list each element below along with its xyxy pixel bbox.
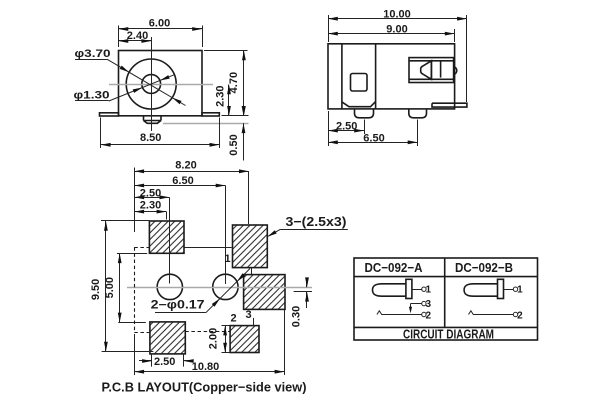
- dimension 0.50 extension line (tab bottom): [163, 123, 249, 125]
- svg-text:φ1.30: φ1.30: [74, 90, 110, 102]
- svg-text:1: 1: [224, 253, 230, 265]
- circuit B: terminal 2 contact line: [469, 311, 518, 317]
- svg-text:0.30: 0.30: [291, 306, 303, 327]
- circuit A: terminal 3 circle: [411, 301, 427, 305]
- front view: outer barrel circle (3.70 dia): [126, 59, 176, 109]
- side view: front pin (pin 2 lug): [355, 109, 374, 118]
- leader line for holes (2-dia0.17): [155, 269, 250, 313]
- svg-text:2: 2: [517, 310, 523, 321]
- svg-text:5.00: 5.00: [104, 277, 116, 298]
- side view: rear terminal tab: [432, 103, 467, 107]
- dimension 2.00 line with arrows: [223, 326, 227, 353]
- circuit table column divider: [444, 258, 446, 327]
- circuit table header divider: [354, 276, 538, 278]
- dimension 5.00 text: [104, 277, 116, 298]
- side view: barrel bottom chamfer: [342, 102, 376, 107]
- dimension 8.20 line with arrows: [134, 169, 249, 173]
- svg-text:9.50: 9.50: [90, 279, 102, 300]
- pcb link line (pad A to pad B): [184, 247, 231, 249]
- dimension 4.70 line with arrows: [242, 51, 246, 116]
- dimension 0.50 line with outside arrows: [242, 106, 246, 161]
- svg-text:2: 2: [426, 310, 432, 321]
- svg-text:2.00: 2.00: [208, 328, 220, 349]
- side view: body outline: [328, 44, 455, 109]
- dimension 10.00 extension lines: [329, 15, 467, 102]
- dimension 10.80 extension lines: [135, 310, 285, 375]
- dimension 0.30 lines with outside arrows: [305, 277, 309, 308]
- svg-text:3: 3: [245, 309, 251, 321]
- dimension 2.30 text: [214, 85, 226, 106]
- svg-text:2.30: 2.30: [214, 85, 226, 106]
- side view: plug tip symbol: [421, 61, 432, 80]
- dimension 10.00 line with arrows: [328, 17, 467, 21]
- dimension 6.50 extension into hole 2: [225, 186, 227, 285]
- dimension 2.30 text (pcb): [140, 200, 161, 212]
- header text DC-092-A: [365, 260, 424, 275]
- svg-text:CIRCUIT DIAGRAM: CIRCUIT DIAGRAM: [403, 327, 494, 341]
- side view: middle pin (pin 3 lug): [409, 109, 427, 118]
- leader line for dia 1.30: [75, 75, 174, 101]
- dimension 6.00 text: [149, 18, 170, 30]
- dimension 2.30 line with arrows (pcb): [134, 210, 166, 214]
- front view: horizontal centerline: [109, 84, 213, 86]
- 2-dia0.17 text: [151, 300, 205, 312]
- dimension 2.30 extension (pad A center): [166, 212, 168, 220]
- dimension 6.50 text (side view): [363, 132, 384, 144]
- dimension 2.50 outside arrows (pad D): [139, 359, 194, 363]
- svg-text:8.50: 8.50: [140, 132, 161, 144]
- front view: vertical centerline: [151, 37, 153, 131]
- dimension 2.40 line with arrows: [119, 39, 152, 43]
- circuit A: switch arrow: [409, 304, 412, 314]
- pcb pad B (top-right, pin1): [233, 225, 268, 268]
- pcb pin label 3: [245, 309, 251, 321]
- dimension 10.00 text: [383, 8, 411, 20]
- front view: jack body outline: [119, 51, 203, 116]
- dimension 9.00 line with arrows: [328, 32, 455, 36]
- dimension 2.50 extension into hole 1: [169, 197, 171, 283]
- pcb horizontal centerline: [127, 287, 312, 289]
- svg-text:2.40: 2.40: [127, 30, 148, 42]
- circuit B: terminal 2 label: [517, 310, 523, 321]
- front view: right mounting flange: [202, 113, 219, 116]
- svg-text:2−φ0.17: 2−φ0.17: [151, 300, 205, 312]
- side view: contact bump on right edge: [454, 67, 457, 75]
- dimension 0.30 extension line (pad C center): [294, 291, 312, 293]
- dimension 2.30 line with arrows: [227, 85, 231, 116]
- svg-text:2.50: 2.50: [140, 187, 161, 199]
- svg-text:10.00: 10.00: [383, 8, 411, 20]
- dimension 6.50 text (pcb): [172, 175, 193, 187]
- svg-text:φ3.70: φ3.70: [75, 48, 111, 60]
- dimension 6.50 extension line (side view): [417, 120, 419, 147]
- svg-text:6.50: 6.50: [172, 175, 193, 187]
- circuit A: terminal 2 label: [426, 310, 432, 321]
- dia 1.30 text: [74, 90, 110, 102]
- dimension 9.50 extension lines: [101, 221, 153, 352]
- pcb pad D (bottom-left): [150, 322, 185, 354]
- dimension 2.00 extension lines: [222, 326, 231, 353]
- dimension 8.50 text: [140, 132, 161, 144]
- svg-text:2.50: 2.50: [154, 356, 175, 368]
- caption CIRCUIT DIAGRAM: [403, 327, 494, 341]
- dimension 9.50 text: [90, 279, 102, 300]
- circuit A: jack barrel symbol: [373, 279, 427, 298]
- side view: front plate line: [341, 44, 343, 109]
- front view: left mounting flange: [100, 113, 119, 116]
- svg-text:2: 2: [230, 312, 236, 324]
- svg-text:2.30: 2.30: [140, 200, 161, 212]
- pcb hole 1 (left): [157, 274, 182, 299]
- svg-text:10.80: 10.80: [192, 361, 220, 373]
- dimension 6.50 line with arrows (side view): [328, 140, 418, 144]
- dimension 0.50 text: [228, 134, 240, 155]
- pcb pin label 2: [230, 312, 236, 324]
- dimension 10.80 line with arrows: [134, 370, 284, 374]
- side view: contact divider line: [440, 61, 442, 77]
- circuit table bottom band divider: [354, 326, 538, 328]
- dimension 6.00 extension lines: [119, 26, 203, 48]
- front view: center pin hole circle (1.30 dia): [142, 75, 161, 94]
- pcb pad A (top-left, pin2 side): [149, 221, 184, 253]
- pcb left extension line: [134, 168, 136, 233]
- header text DC-092-B: [455, 260, 513, 275]
- dia 3.70 text: [75, 48, 111, 60]
- svg-text:3: 3: [426, 299, 432, 310]
- circuit A: terminal 2 contact line: [377, 311, 426, 317]
- pcb layout caption: [102, 380, 307, 395]
- circuit A: terminal 3 label: [426, 299, 432, 310]
- dimension 2.00 text: [208, 328, 220, 349]
- dimension 2.50 line with arrows (side view): [328, 129, 364, 133]
- pcb pin 3 tick line: [253, 318, 255, 326]
- svg-text:8.20: 8.20: [175, 159, 196, 171]
- svg-text:1: 1: [426, 285, 432, 296]
- dimension 4.70 extension lines: [204, 51, 249, 116]
- 3-(2.5x3) text: [286, 214, 347, 229]
- dimension 10.80 text: [192, 361, 220, 373]
- pcb pad link line (pad B to pad C): [251, 268, 253, 275]
- circuit A: terminal 1 label: [426, 285, 432, 296]
- pcb pad E (bottom-center, pin2): [230, 326, 259, 353]
- dimension 6.50 line with arrows (pcb): [134, 184, 225, 188]
- svg-text:9.00: 9.00: [386, 23, 407, 35]
- dimension 5.00 extension lines: [117, 254, 147, 323]
- dimension 8.20 text: [175, 159, 196, 171]
- svg-text:P.C.B LAYOUT(Copper−side view): P.C.B LAYOUT(Copper−side view): [102, 380, 307, 395]
- svg-text:DC−092−B: DC−092−B: [455, 260, 513, 275]
- pcb pad C (right-middle, pin3): [244, 275, 285, 310]
- dimension 2.50 extension lines (side view): [329, 111, 365, 146]
- side view: square hole in barrel: [351, 74, 368, 92]
- dimension 2.50 line with arrows (pcb top): [134, 195, 169, 199]
- dimension 8.50 line with arrows: [101, 143, 220, 147]
- dimension 2.50 extension ticks (pad D): [152, 354, 184, 367]
- dimension 6.00 line with arrows: [119, 27, 203, 31]
- dimension 9.50 line with arrows: [104, 221, 108, 352]
- circuit B: terminal 1 label: [517, 285, 523, 296]
- dimension 2.40 text: [127, 30, 148, 42]
- dimension 9.00 text: [386, 23, 407, 35]
- pcb pin label 1: [224, 253, 230, 265]
- leader line for dia 3.70: [75, 59, 186, 105]
- svg-text:3−(2.5x3): 3−(2.5x3): [286, 214, 347, 229]
- svg-text:0.50: 0.50: [228, 134, 240, 155]
- svg-text:6.50: 6.50: [363, 132, 384, 144]
- dimension 9.00 extension line: [454, 29, 456, 42]
- pcb hole 2 (right): [213, 274, 238, 299]
- dimension 5.00 line with arrows: [118, 253, 122, 322]
- dimension 2.50 text (pcb top): [140, 187, 161, 199]
- svg-text:2.50: 2.50: [336, 120, 357, 132]
- svg-text:DC−092−A: DC−092−A: [365, 260, 424, 275]
- dimension 2.50 text (side view): [336, 120, 357, 132]
- dimension 8.20 extension (pad B center): [248, 171, 250, 224]
- dimension 4.70 text: [228, 72, 240, 93]
- svg-text:1: 1: [517, 285, 523, 296]
- leader line for pad size (3-(2.5x3)): [267, 229, 348, 237]
- side view: switch contact housing: [409, 58, 454, 83]
- dimension 2.50 text (pad D): [154, 356, 175, 368]
- svg-text:6.00: 6.00: [149, 18, 170, 30]
- circuit table outer frame: [354, 258, 538, 340]
- dimension 0.30 text: [291, 306, 303, 327]
- side view: barrel rear line: [375, 44, 377, 109]
- front view: bottom center pin tab: [144, 116, 162, 124]
- dimension 8.50 extension lines: [101, 118, 220, 149]
- pcb dashed component outline: [134, 247, 230, 332]
- circuit B: jack barrel symbol: [464, 279, 518, 298]
